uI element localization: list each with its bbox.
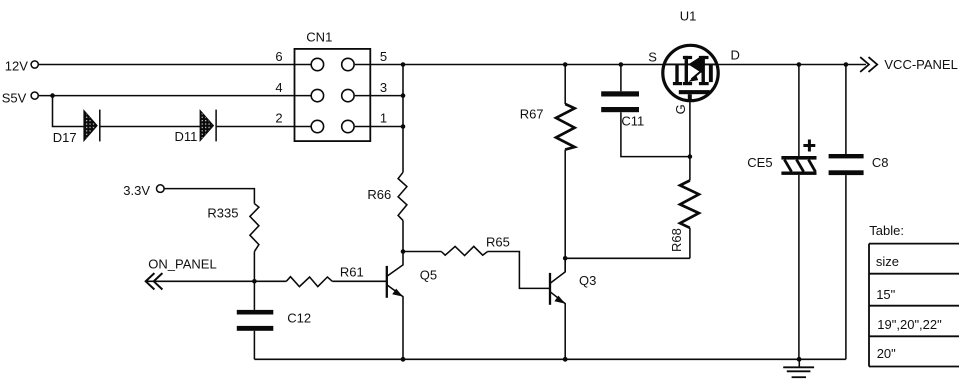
svg-text:C12: C12: [287, 311, 311, 326]
svg-text:R67: R67: [520, 107, 544, 122]
svg-text:C8: C8: [872, 155, 889, 170]
svg-text:G: G: [673, 104, 688, 114]
svg-text:15": 15": [876, 287, 895, 302]
svg-text:12V: 12V: [5, 58, 28, 73]
svg-text:R61: R61: [340, 265, 364, 280]
svg-text:4: 4: [275, 80, 282, 95]
svg-text:S: S: [648, 50, 657, 65]
svg-text:R65: R65: [486, 235, 510, 250]
svg-text:5: 5: [380, 49, 387, 64]
svg-text:U1: U1: [680, 9, 697, 24]
svg-text:6: 6: [275, 49, 282, 64]
svg-text:20": 20": [877, 346, 896, 361]
svg-text:Q5: Q5: [420, 267, 437, 282]
svg-text:Table:: Table:: [869, 223, 904, 238]
svg-text:D: D: [731, 48, 740, 63]
svg-text:CE5: CE5: [747, 155, 772, 170]
svg-text:R68: R68: [669, 228, 684, 252]
svg-text:2: 2: [275, 111, 282, 126]
svg-text:CN1: CN1: [306, 30, 332, 45]
svg-text:VCC-PANEL: VCC-PANEL: [884, 57, 957, 72]
svg-text:R66: R66: [367, 187, 391, 202]
svg-text:1: 1: [380, 111, 387, 126]
svg-text:Q3: Q3: [579, 273, 596, 288]
svg-text:S5V: S5V: [2, 91, 27, 106]
svg-text:size: size: [876, 254, 899, 269]
svg-text:3.3V: 3.3V: [123, 183, 150, 198]
svg-text:3: 3: [380, 80, 387, 95]
svg-text:R335: R335: [207, 206, 238, 221]
svg-text:C11: C11: [621, 114, 644, 129]
svg-text:19",20",22": 19",20",22": [877, 317, 942, 332]
svg-text:D11: D11: [175, 129, 198, 144]
svg-text:D17: D17: [53, 130, 77, 145]
svg-text:ON_PANEL: ON_PANEL: [148, 257, 216, 272]
